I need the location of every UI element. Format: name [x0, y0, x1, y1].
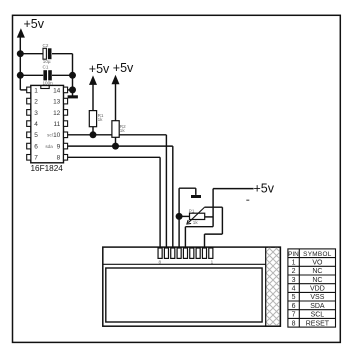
- svg-text:3: 3: [34, 110, 38, 117]
- svg-text:PIN: PIN: [288, 251, 299, 258]
- svg-text:8: 8: [159, 259, 162, 264]
- svg-text:4: 4: [292, 286, 296, 293]
- svg-text:1: 1: [292, 260, 296, 267]
- svg-text:10: 10: [53, 132, 61, 139]
- svg-text:+5v: +5v: [89, 62, 110, 76]
- svg-text:12: 12: [53, 110, 61, 117]
- svg-text:SCL: SCL: [311, 312, 325, 319]
- svg-text:sda: sda: [45, 144, 53, 149]
- svg-text:C2: C2: [43, 43, 49, 48]
- svg-text:1k: 1k: [193, 220, 199, 225]
- svg-text:SYMBOL: SYMBOL: [303, 251, 332, 258]
- svg-text:7: 7: [292, 312, 296, 319]
- svg-text:3: 3: [292, 277, 296, 284]
- svg-text:NC: NC: [312, 277, 322, 284]
- svg-text:+5v: +5v: [254, 181, 275, 195]
- svg-text:1k: 1k: [98, 117, 104, 122]
- svg-text:6: 6: [292, 303, 296, 310]
- svg-text:+5v: +5v: [113, 61, 134, 75]
- svg-text:+5v: +5v: [24, 17, 45, 31]
- svg-text:RESET: RESET: [306, 320, 330, 327]
- svg-text:VDD: VDD: [310, 286, 325, 293]
- svg-text:C1: C1: [43, 64, 49, 69]
- svg-text:7: 7: [34, 155, 38, 162]
- svg-text:SDA: SDA: [310, 303, 325, 310]
- svg-text:9: 9: [57, 144, 61, 151]
- svg-text:16F1824: 16F1824: [31, 164, 64, 173]
- svg-text:VO: VO: [312, 260, 323, 267]
- svg-text:6: 6: [34, 144, 38, 151]
- svg-text:100n: 100n: [43, 80, 54, 85]
- svg-text:5: 5: [34, 132, 38, 139]
- svg-text:1k: 1k: [120, 128, 126, 133]
- svg-text:14: 14: [53, 87, 61, 94]
- svg-text:2: 2: [292, 268, 296, 275]
- svg-text:NC: NC: [312, 268, 322, 275]
- svg-text:8: 8: [57, 155, 61, 162]
- svg-text:11: 11: [54, 121, 61, 128]
- svg-text:VSS: VSS: [310, 294, 324, 301]
- svg-text:4: 4: [34, 121, 38, 128]
- svg-text:13: 13: [53, 99, 61, 106]
- svg-text:1: 1: [211, 259, 214, 264]
- svg-text:5: 5: [292, 294, 296, 301]
- svg-text:scl: scl: [47, 133, 53, 138]
- svg-text:1: 1: [34, 87, 38, 94]
- svg-text:2: 2: [34, 99, 38, 106]
- svg-text:P1: P1: [189, 208, 195, 213]
- svg-text:8: 8: [292, 320, 296, 327]
